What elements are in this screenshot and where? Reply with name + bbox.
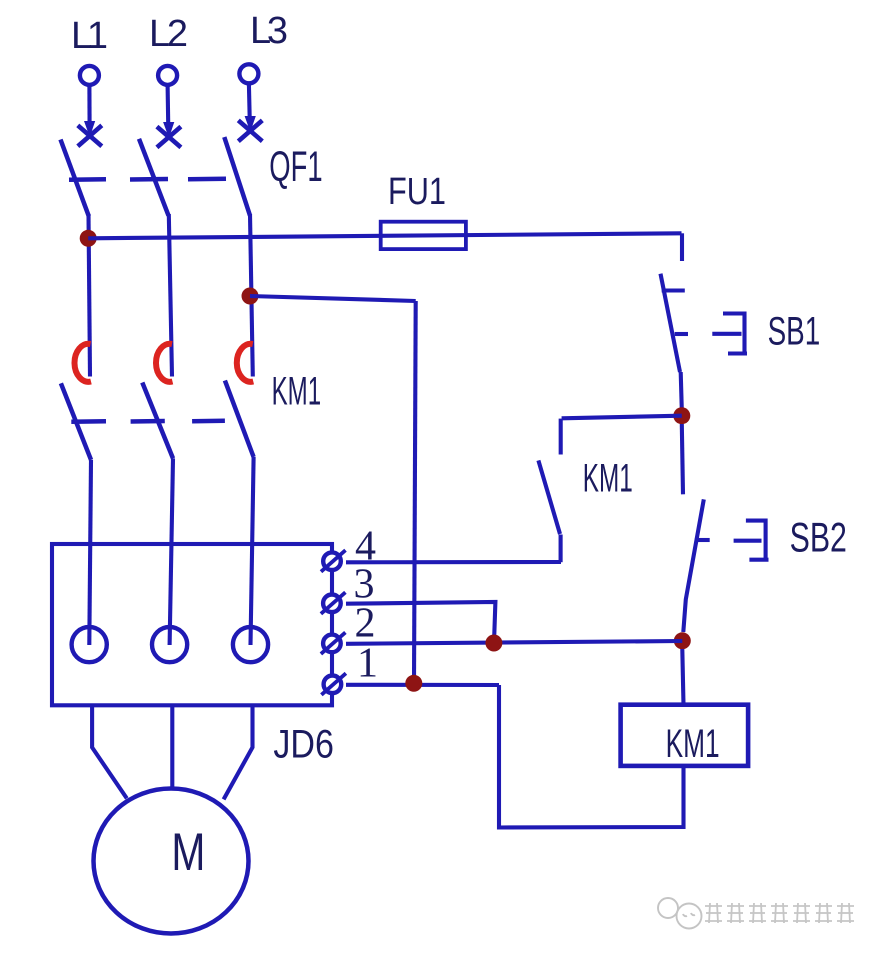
junction dot control tap	[242, 288, 259, 305]
svg-text:KM1: KM1	[583, 456, 633, 500]
svg-text:JD6: JD6	[273, 723, 334, 767]
wire pole1 lower vertical	[89, 460, 91, 645]
terminal 1 circle	[321, 673, 346, 695]
terminal big circle 3	[233, 627, 268, 662]
arc suppressor pole2	[156, 344, 172, 382]
wire motor lead right	[224, 705, 253, 799]
motor M circle	[94, 789, 249, 934]
wire pole3 vertical	[250, 214, 253, 377]
wire pole3 lower vertical	[251, 457, 254, 645]
wire coil top stub	[682, 649, 683, 705]
svg-text:FU1: FU1	[388, 171, 446, 213]
arc suppressor pole3	[237, 344, 253, 382]
contact KM1 aux blade	[538, 460, 560, 534]
breaker QF1 pole1 blade	[61, 140, 89, 217]
svg-text:1: 1	[357, 641, 378, 687]
pushbutton SB1 contact tick top	[662, 288, 685, 292]
wire motor lead left	[92, 705, 127, 798]
wire pole2 lower vertical	[170, 458, 173, 645]
pushbutton SB1 actuator cap	[723, 312, 747, 356]
pushbutton SB1 contact tick bottom	[675, 332, 688, 336]
coil KM1 box	[621, 705, 749, 766]
pushbutton SB1 actuator stem	[712, 332, 741, 336]
terminal big circle 2	[152, 627, 187, 662]
terminal circle L3	[239, 64, 258, 83]
junction dot L1 bus	[80, 230, 97, 247]
wire control tap horizontal	[250, 296, 416, 301]
wire motor lead middle	[170, 705, 174, 787]
wire pole1 vertical	[89, 214, 91, 377]
X mark L1	[78, 125, 102, 146]
arrow L2	[163, 86, 174, 139]
terminal big circle 1	[72, 627, 107, 662]
svg-text:KM1: KM1	[666, 722, 720, 766]
wire KM1 aux top stub	[559, 419, 563, 455]
terminal circle L1	[80, 66, 99, 85]
wire terminal 4	[346, 560, 561, 564]
watermark logo	[658, 898, 702, 929]
wire terminal 1 return loop	[499, 685, 684, 828]
wire terminal 3	[346, 602, 495, 643]
breaker QF1 linkage dashes	[69, 179, 226, 180]
terminal 3 circle	[321, 592, 346, 614]
svg-text:SB1: SB1	[768, 310, 821, 354]
junction dot SB1 bottom	[673, 407, 690, 424]
svg-text:L2: L2	[149, 13, 188, 55]
arrow L3	[245, 84, 256, 132]
svg-text:M: M	[171, 823, 205, 882]
svg-text:L3: L3	[250, 10, 288, 52]
X mark L3	[238, 120, 262, 141]
breaker QF1 pole2 blade	[139, 139, 169, 216]
terminal 4 circle	[321, 550, 346, 572]
wire SB1 bottom stub	[681, 372, 682, 410]
pushbutton SB2 actuator cap	[746, 519, 769, 562]
svg-text:KM1: KM1	[272, 369, 322, 413]
pushbutton SB2 actuator stem	[734, 539, 762, 543]
contactor KM1 pole3 blade	[225, 381, 254, 458]
pushbutton SB2 blade	[683, 499, 704, 632]
wire pole2 vertical	[169, 214, 172, 377]
wire SB2 top stub	[682, 424, 683, 494]
svg-text:QF1: QF1	[269, 143, 322, 191]
junction dot terminal 1 tap	[405, 675, 422, 692]
arrow L1	[84, 86, 95, 138]
terminal 2 circle	[321, 632, 346, 654]
contactor KM1 pole2 blade	[142, 383, 173, 459]
junction dot terminals 2-3	[485, 635, 502, 652]
arc suppressor pole1	[75, 344, 91, 382]
contactor KM1 pole1 blade	[61, 383, 91, 460]
wire aux branch horizontal	[562, 416, 682, 419]
terminal circle L2	[158, 66, 177, 85]
X mark L2	[157, 127, 181, 148]
junction dot SB2 bottom	[674, 632, 691, 649]
contactor KM1 linkage dashes	[71, 421, 225, 422]
wire terminal 1	[346, 683, 499, 687]
wire terminal 2	[346, 641, 682, 644]
wire control tap vertical	[414, 301, 416, 683]
pushbutton SB1 blade	[661, 274, 681, 372]
wire KM1 aux bottom stub	[559, 535, 563, 563]
svg-text:SB2: SB2	[790, 514, 847, 561]
fuse FU1	[381, 222, 466, 249]
wire bus to fuse	[88, 233, 681, 238]
watermark text	[705, 903, 854, 923]
wire SB1 top stub	[680, 233, 684, 261]
pushbutton SB2 contact tick	[695, 538, 710, 542]
svg-text:L1: L1	[71, 15, 108, 57]
terminal block JD6 box	[52, 544, 332, 705]
breaker QF1 pole3 blade	[224, 137, 250, 216]
